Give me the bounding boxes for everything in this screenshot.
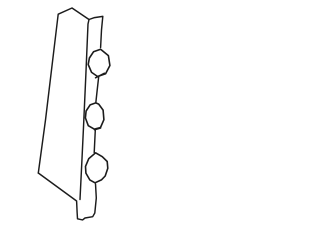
clip C2 overshoot tick xyxy=(95,128,101,130)
clip C3 retainer xyxy=(86,153,108,183)
strip top edge and right edge upper section xyxy=(89,16,103,47)
wire edge between clip2 and clip3 xyxy=(94,130,95,153)
clip C2 retainer xyxy=(85,103,104,129)
clip C1 overshoot tick xyxy=(96,73,105,78)
panel bottom edge and strip bottom with right edge lower section xyxy=(38,173,96,220)
clip C1 retainer xyxy=(88,49,110,76)
wire edge between clip1 and clip2 xyxy=(96,77,99,103)
panel face: left edge, top edge and fold line of garnish xyxy=(38,8,89,200)
